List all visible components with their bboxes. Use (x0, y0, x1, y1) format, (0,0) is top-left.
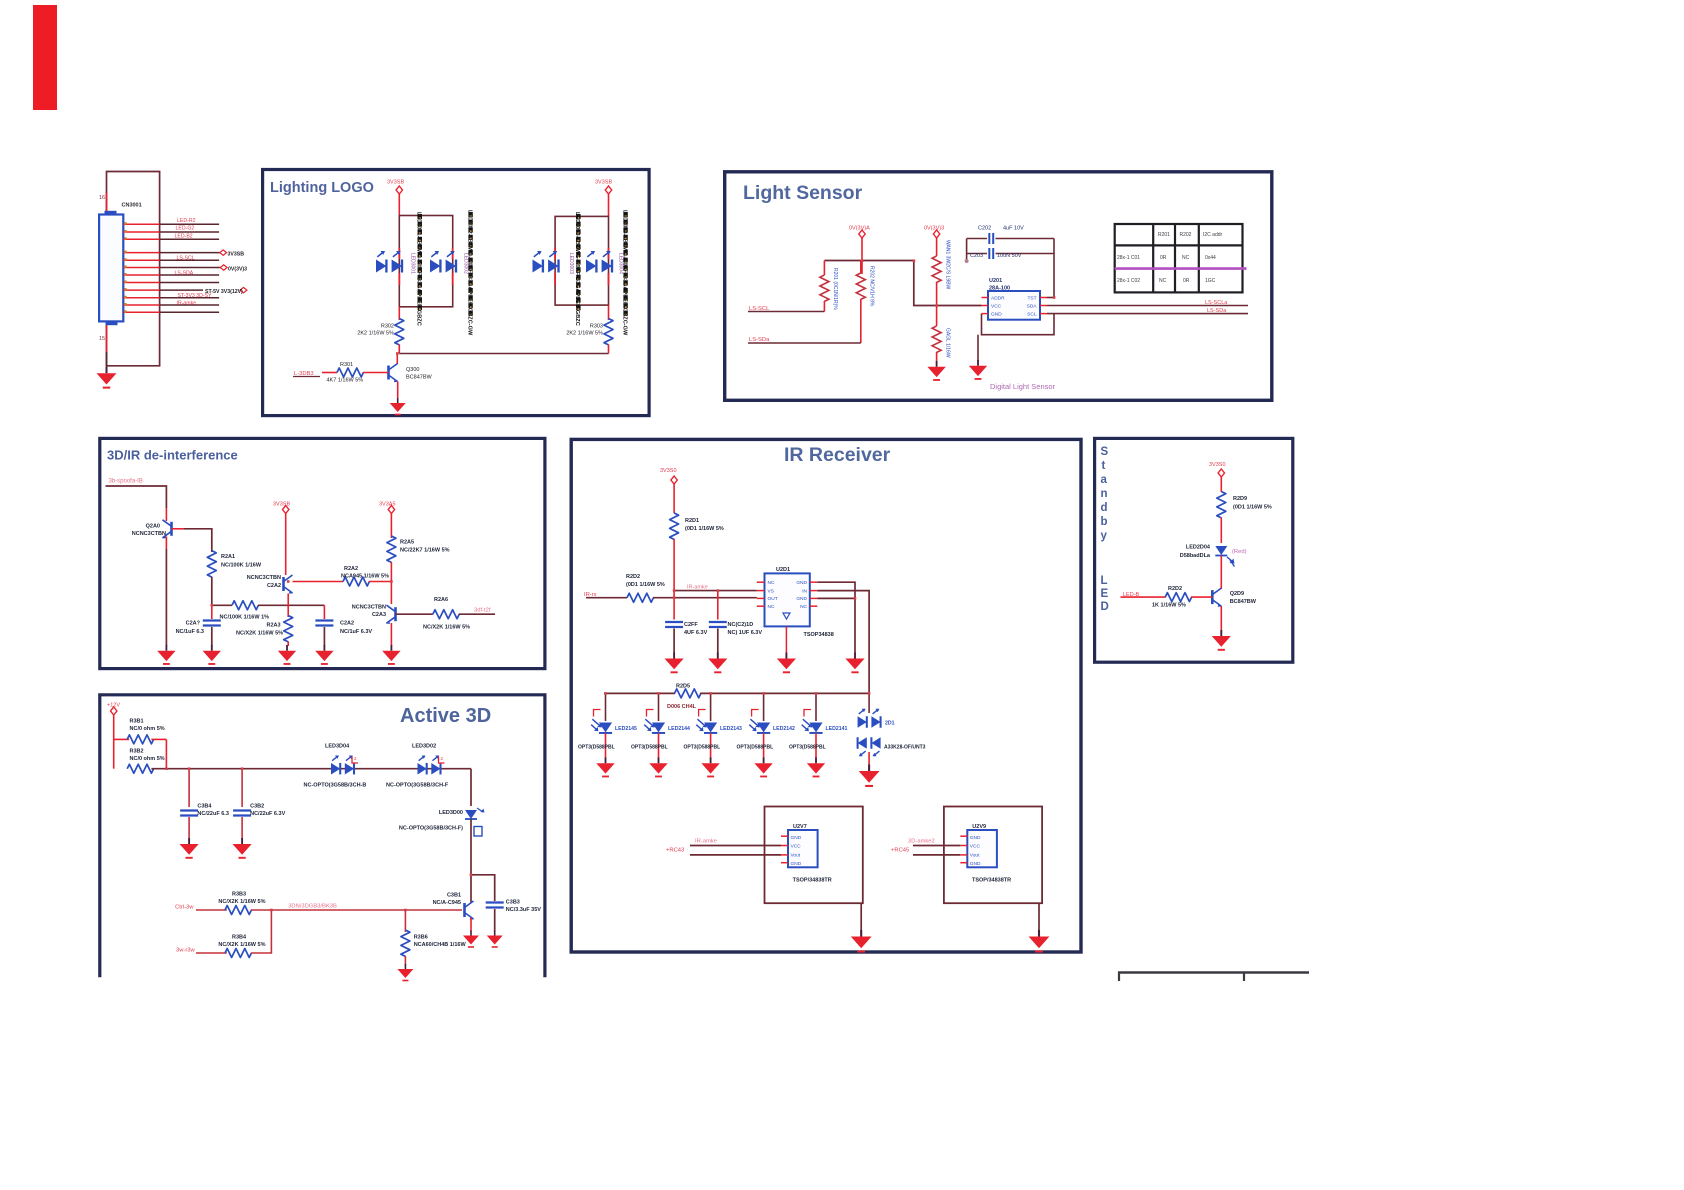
net label LS-SCL (748, 306, 824, 312)
svg-text:4UF 6.3V: 4UF 6.3V (684, 630, 708, 636)
IC left pins (982, 298, 989, 314)
svg-text:3V3S0: 3V3S0 (1209, 462, 1226, 468)
svg-text:NC-OPTO(3G58B/3CH-B: NC-OPTO(3G58B/3CH-B (304, 783, 367, 789)
svg-text:3V3SB: 3V3SB (595, 180, 612, 186)
svg-text:NCA60/CH4B 1/16W: NCA60/CH4B 1/16W (414, 942, 467, 948)
wire rail to transistor (396, 354, 398, 365)
capacitor C3B3 (486, 903, 504, 932)
pin 5 wire (123, 259, 219, 261)
svg-text:C3B2: C3B2 (250, 804, 264, 810)
R301 value label (340, 362, 353, 368)
svg-text:I2C addr: I2C addr (1203, 232, 1223, 238)
svg-text:NC/22uF 6.3V: NC/22uF 6.3V (250, 811, 285, 817)
resistor R203 (932, 240, 950, 326)
svg-text:LED-G2: LED-G2 (176, 226, 195, 232)
svg-text:VS: VS (768, 588, 774, 594)
svg-text:VCC: VCC (991, 303, 1002, 309)
svg-text:2K2 1/16W 5%: 2K2 1/16W 5% (357, 331, 394, 337)
svg-text:GND: GND (796, 580, 807, 586)
svg-text:SDA: SDA (1027, 303, 1038, 309)
capacitor C2D0 (709, 591, 727, 654)
LED2144 group (644, 693, 690, 758)
ground under C3B3 (487, 931, 503, 948)
Lighting LOGO box frame (263, 170, 649, 416)
LED3D02 labels (386, 744, 449, 789)
power flag 3V3SB (1209, 462, 1226, 492)
control rail with R3B3 (175, 905, 462, 915)
svg-text:0V(3V)3: 0V(3V)3 (924, 226, 944, 232)
3D/IR de-interference box frame (100, 438, 545, 668)
pin 9 wire to ST 3V3(12V) (123, 287, 247, 292)
cap loop right vertical (1053, 239, 1055, 298)
svg-text:NC/X2K 1/16W 5%: NC/X2K 1/16W 5% (236, 631, 283, 637)
svg-text:BC847BW: BC847BW (406, 375, 432, 381)
svg-text:IR-amke: IR-amke (695, 839, 717, 845)
transistor Q2A3 (386, 605, 396, 624)
ground under Q2A3 (382, 645, 400, 664)
LED3001 dual led (376, 251, 402, 272)
SDA output wire (1047, 305, 1248, 307)
svg-text:C2FF: C2FF (684, 622, 698, 628)
resistor R204 (932, 326, 950, 362)
wire R2A2 to node (369, 581, 391, 583)
svg-text:NCNC3CTBN: NCNC3CTBN (352, 605, 386, 611)
svg-text:0R: 0R (1160, 255, 1167, 261)
IC right pins (810, 582, 818, 606)
option table (1115, 224, 1247, 292)
LED3002 rotated part text column (462, 210, 472, 336)
Active 3D box frame (open bottom) (100, 695, 545, 978)
svg-text:OPT3(D588PBL: OPT3(D588PBL (789, 745, 826, 751)
GND pin loop (978, 314, 1054, 361)
C3B3 labels (506, 900, 541, 914)
LED3D04 labels (304, 744, 367, 789)
svg-text:IN: IN (802, 588, 807, 594)
svg-text:R2A5: R2A5 (400, 540, 414, 546)
svg-text:R3B6: R3B6 (414, 935, 428, 941)
svg-text:t: t (1102, 460, 1106, 472)
resistor R3B6 (401, 910, 410, 965)
resistor R3B1 (114, 735, 167, 769)
U2V9 pins (960, 836, 967, 863)
ground under C2D0 (708, 653, 727, 673)
resistor R2A3 vertical (284, 605, 293, 646)
svg-text:VCC: VCC (970, 844, 981, 850)
wire LED to Q2D9 (1220, 556, 1222, 590)
svg-text:LED3D00: LED3D00 (439, 810, 463, 816)
svg-text:R2D1: R2D1 (685, 518, 699, 524)
ground below connector (97, 352, 117, 388)
ground under R3B6 (397, 964, 413, 981)
svg-text:U201: U201 (989, 278, 1002, 284)
svg-text:Lighting LOGO: Lighting LOGO (270, 180, 374, 196)
svg-text:GND: GND (970, 861, 981, 867)
svg-text:NC/3.3uF 35V: NC/3.3uF 35V (506, 907, 541, 913)
svg-text:R2D9: R2D9 (1233, 496, 1247, 502)
svg-text:A33K28-OF/UNT3: A33K28-OF/UNT3 (884, 745, 926, 751)
capacitor C2FF (665, 598, 683, 654)
power flag 3V3A5 (379, 502, 396, 539)
svg-text:3b-spoofa-IB: 3b-spoofa-IB (109, 479, 143, 485)
svg-text:C3B3: C3B3 (506, 900, 520, 906)
svg-text:C2A3: C2A3 (372, 612, 386, 618)
collector rail wire (399, 353, 608, 355)
C2A2 labels (340, 621, 372, 636)
svg-text:LED3001-LBDWG-A0AF-B3GAPBEB-GB: LED3001-LBDWG-A0AF-B3GAPBEB-GBZC (416, 212, 422, 326)
svg-text:D58badDLa: D58badDLa (1180, 553, 1211, 559)
svg-text:Digital Light Sensor: Digital Light Sensor (990, 382, 1056, 391)
svg-text:GND: GND (991, 311, 1002, 317)
svg-text:NC: NC (1182, 255, 1190, 261)
svg-text:Q2A0: Q2A0 (146, 524, 160, 530)
input wire with R2D2 (586, 593, 757, 602)
LED3004 rotated part text column (617, 210, 627, 336)
emitter wire Q2A2 (287, 594, 289, 606)
svg-text:GND: GND (791, 861, 802, 867)
svg-text:0R: 0R (1183, 278, 1190, 284)
svg-text:TSOP/34838TR: TSOP/34838TR (793, 878, 832, 884)
LED3002 dual led (430, 251, 456, 272)
ground under C2A2 (315, 645, 333, 664)
net label 3b-spoofa-IB (106, 479, 167, 509)
svg-text:ST-3V3 3D-SY: ST-3V3 3D-SY (178, 293, 213, 299)
svg-text:NCNC3CTBN: NCNC3CTBN (132, 531, 166, 537)
C2A1 labels (176, 621, 204, 636)
U2V7 pins (781, 836, 788, 863)
svg-text:0V(3V)3: 0V(3V)3 (228, 266, 247, 272)
svg-text:IR-amke: IR-amke (177, 300, 197, 306)
svg-text:R3B1: R3B1 (130, 719, 144, 725)
svg-text:R2A2: R2A2 (344, 566, 358, 572)
svg-text:LED2144: LED2144 (668, 726, 690, 732)
R3B4 labels (218, 935, 265, 949)
svg-text:NC/0 ohm 5%: NC/0 ohm 5% (130, 756, 165, 762)
ground under U201 (969, 360, 987, 379)
svg-text:LED-B: LED-B (1123, 592, 1140, 598)
R2D9 labels (1233, 496, 1272, 511)
transistor Q2D9 (1212, 588, 1222, 607)
svg-text:R201: R201 (1158, 232, 1170, 238)
svg-text:BC847BW: BC847BW (1230, 599, 1257, 605)
svg-text:C3B1: C3B1 (447, 893, 461, 899)
capacitor C3B4 (180, 769, 198, 839)
R302 value label (357, 324, 394, 337)
svg-text:LED3003: LED3003 (568, 253, 574, 274)
wire right pin1 to cap loop (1047, 297, 1054, 299)
transistor Q300 (389, 364, 399, 383)
C2D0 labels (728, 622, 763, 636)
ground under Q2D9 (1212, 630, 1231, 650)
svg-text:LS-SDa: LS-SDa (1207, 308, 1227, 314)
svg-text:LED3D02: LED3D02 (412, 744, 436, 750)
opto part labels row (578, 745, 826, 751)
IC U201 (988, 291, 1040, 320)
power flag 0V(3V)3 (924, 226, 944, 257)
power flag 3V3SB left (387, 180, 404, 216)
ground under Q2A0 (157, 645, 175, 664)
pin 2 wire (123, 231, 219, 233)
Q2A3 labels (352, 605, 386, 619)
svg-text:C2A2: C2A2 (340, 621, 354, 627)
led rail wire with R2D5 (604, 689, 869, 698)
svg-text:Ctrl-3w: Ctrl-3w (175, 905, 194, 911)
resistor R2A1 (207, 551, 216, 577)
svg-text:3D/IR de-interference: 3D/IR de-interference (107, 448, 238, 463)
svg-text:R2A1: R2A1 (221, 554, 235, 560)
svg-text:NC: NC (800, 604, 807, 610)
svg-text:TST: TST (1027, 295, 1036, 301)
resistor R202 (856, 261, 874, 344)
LED2143 group (696, 693, 742, 758)
svg-text:R2D2: R2D2 (626, 574, 640, 580)
svg-text:Q2D9: Q2D9 (1230, 591, 1244, 597)
svg-text:IR-amke: IR-amke (687, 584, 708, 590)
LED2D04 (1215, 546, 1234, 567)
svg-text:4uF 10V: 4uF 10V (1003, 226, 1024, 232)
R2D2 labels (1152, 586, 1186, 609)
svg-text:R2A6: R2A6 (434, 597, 448, 603)
base wire with R2D2 (1121, 593, 1213, 602)
ground under R2A3 (278, 645, 296, 664)
svg-text:CN3001: CN3001 (122, 203, 142, 209)
capacitor C2A1 (203, 605, 221, 646)
svg-text:4K7 1/16W 5%: 4K7 1/16W 5% (327, 378, 364, 384)
Q2D9 labels (1230, 591, 1257, 605)
LED vertical title (1101, 575, 1109, 613)
svg-text:LS-SDA: LS-SDA (175, 270, 194, 276)
svg-text:R3B2: R3B2 (130, 749, 144, 755)
LED3004 dual led (586, 251, 612, 272)
collector stub Q2A0 (165, 508, 167, 521)
svg-text:n: n (1101, 488, 1108, 500)
svg-text:28A-100: 28A-100 (989, 286, 1010, 292)
resistor R2D9 (1217, 492, 1226, 518)
power flag +12V (107, 703, 120, 769)
svg-text:NC/100K 1/16W 1%: NC/100K 1/16W 1% (220, 615, 270, 621)
pin 3 wire (123, 238, 219, 240)
LED2141 group (802, 693, 848, 758)
svg-text:OUT: OUT (768, 596, 778, 602)
svg-text:Active 3D: Active 3D (400, 705, 491, 727)
R3B1 labels (130, 719, 165, 733)
sub box U2V9 (944, 807, 1042, 904)
wire R2D1 down (673, 539, 675, 598)
node wire horizontal (212, 601, 325, 610)
svg-text:3DN/3DGB3/BK3B: 3DN/3DGB3/BK3B (288, 904, 337, 910)
pin 12 wire (123, 311, 219, 313)
svg-text:U2V7: U2V7 (793, 824, 807, 830)
svg-text:OPT3(D588PBL: OPT3(D588PBL (578, 745, 615, 751)
LED3003 rotated part text column (568, 212, 580, 326)
svg-text:NC/X2K 1/16W 5%: NC/X2K 1/16W 5% (423, 625, 470, 631)
IC U2V9 (967, 830, 997, 867)
base wire of Q2A0 (172, 529, 212, 552)
ground under C2A1 (203, 645, 221, 664)
resistor R2A5 (387, 536, 396, 562)
LED3D00 labels (399, 810, 463, 832)
svg-text:E: E (1101, 588, 1109, 600)
ground under 2D1 (859, 765, 880, 786)
SCL output wire (1047, 313, 1248, 315)
IC U2D1 (765, 573, 810, 626)
svg-text:NC/A-C945: NC/A-C945 (433, 900, 461, 906)
LED3003 dual led (533, 251, 559, 272)
svg-text:R2D2: R2D2 (1168, 586, 1182, 592)
bus wire corner down (914, 261, 982, 306)
R3B6 labels (414, 935, 467, 949)
net label LS-SDA (748, 337, 861, 343)
LED group1 wire loop (399, 216, 452, 307)
R2A5 labels (400, 540, 450, 554)
svg-text:R2A3: R2A3 (267, 623, 281, 629)
Q300 label (406, 367, 432, 381)
R2A6 labels (423, 597, 470, 631)
svg-text:R301: R301 (340, 362, 353, 368)
svg-text:NC-OPTO(3G58B/3CH-F: NC-OPTO(3G58B/3CH-F (386, 783, 449, 789)
svg-text:D006 CH4L: D006 CH4L (667, 704, 697, 710)
svg-text:+RC43: +RC43 (666, 848, 684, 854)
svg-text:2K2 1/16W 5%: 2K2 1/16W 5% (566, 331, 603, 337)
svg-text:SCL: SCL (1027, 311, 1037, 317)
ground under LED2142 (754, 758, 772, 777)
svg-text:R201 (0C1N/1R)%: R201 (0C1N/1R)% (832, 268, 838, 310)
opto led LED3D04 (331, 755, 358, 774)
svg-text:R302: R302 (381, 324, 394, 330)
resistor R2A2 (343, 577, 369, 586)
svg-text:U2V9: U2V9 (972, 824, 986, 830)
wire R2A1 to node (211, 577, 213, 606)
R2D2 labels (626, 574, 665, 588)
ground under C3B4 (180, 838, 199, 858)
svg-text:C2A2: C2A2 (267, 583, 281, 589)
svg-text:3V3S0: 3V3S0 (660, 468, 677, 474)
svg-text:OPT3(D588PBL: OPT3(D588PBL (631, 745, 668, 751)
svg-text:NC/1uF 6.3V: NC/1uF 6.3V (340, 629, 372, 635)
svg-text:LED2D04: LED2D04 (1186, 545, 1211, 551)
svg-text:2D1: 2D1 (885, 721, 895, 727)
IC right pins (1040, 298, 1047, 314)
svg-text:NC/1uF 6.3: NC/1uF 6.3 (176, 629, 204, 635)
svg-text:LS-SCLa: LS-SCLa (1205, 300, 1228, 306)
svg-text:LED3003-LBDWG-A0AF-B3GAPBEB-GB: LED3003-LBDWG-A0AF-B3GAPBEB-GBZC (574, 212, 580, 326)
TVS 2D1 (858, 693, 881, 765)
svg-text:0x44: 0x44 (1205, 255, 1216, 261)
svg-text:LED2143: LED2143 (720, 726, 742, 732)
svg-text:NCNC3CTBN: NCNC3CTBN (247, 575, 281, 581)
svg-text:NC: NC (768, 580, 775, 586)
svg-text:C3B4: C3B4 (197, 804, 212, 810)
ground under U2D1 (777, 653, 796, 673)
transistor Q3B1 (465, 901, 475, 920)
Q2A0 labels (132, 524, 166, 538)
emitter wire to ground (1220, 606, 1222, 631)
emitter wire Q2A0 to ground (165, 537, 167, 647)
svg-text:TSOP/34838TR: TSOP/34838TR (972, 878, 1011, 884)
Standby vertical title (1101, 446, 1109, 542)
svg-text:NC/100K 1/16W: NC/100K 1/16W (221, 563, 262, 569)
branch wire to C3B3 (471, 875, 495, 901)
svg-text:3D-amke2: 3D-amke2 (908, 839, 935, 845)
svg-text:NC) 1UF 6.3V: NC) 1UF 6.3V (728, 630, 763, 636)
svg-text:GND: GND (791, 835, 802, 841)
ground under LED2141 (807, 758, 825, 777)
R2A4 labels (220, 615, 284, 637)
Q3B1 labels (433, 893, 461, 907)
svg-text:LED2142: LED2142 (773, 726, 795, 732)
svg-text:100N 50V: 100N 50V (997, 253, 1022, 259)
opto led LED3D02 (418, 755, 445, 774)
pin 1 wire (123, 223, 219, 225)
ground under LED2144 (649, 758, 667, 777)
pin 6 wire to 0V(3V)3 (123, 265, 227, 270)
svg-text:16: 16 (99, 195, 105, 201)
svg-text:LED-R2: LED-R2 (177, 218, 196, 224)
svg-text:NC/22K7 1/16W 5%: NC/22K7 1/16W 5% (400, 548, 450, 554)
input wires U2V7 (690, 846, 781, 855)
wire R2D9 to LED (1220, 518, 1222, 544)
LED2142 group (749, 693, 795, 758)
svg-text:3df-t2f: 3df-t2f (474, 608, 491, 614)
connector pin number marks (124, 222, 126, 312)
resistor R201 (820, 261, 838, 312)
resistor R303 (604, 305, 613, 353)
VS wire to C2D0 (674, 590, 757, 592)
ground under C2FF (665, 653, 684, 673)
svg-text:LED2141: LED2141 (826, 726, 848, 732)
svg-text:Vout: Vout (970, 853, 980, 859)
svg-text:OPT3(D588PBL: OPT3(D588PBL (737, 745, 774, 751)
C2FF labels (684, 622, 708, 636)
svg-text:(0D1 1/16W 5%: (0D1 1/16W 5% (626, 582, 665, 588)
svg-text:(Red): (Red) (1232, 549, 1247, 555)
main bus wire (151, 768, 471, 770)
power flag 3V3SB (660, 468, 677, 513)
output wire with R2A6 (396, 610, 496, 619)
svg-text:NCA945 1/16W 5%: NCA945 1/16W 5% (341, 574, 389, 580)
svg-text:D: D (1101, 601, 1109, 613)
svg-text:1GC: 1GC (1205, 278, 1216, 284)
svg-text:15: 15 (99, 336, 105, 342)
svg-text:NC/X2K 1/16W 5%: NC/X2K 1/16W 5% (218, 899, 265, 905)
GND wire right to ground (817, 582, 855, 653)
svg-text:+RC45: +RC45 (891, 848, 909, 854)
C3B4 labels (197, 804, 228, 818)
Standby LED box frame (1095, 438, 1293, 662)
R3B2 labels (130, 749, 165, 763)
base resistor R301 (322, 368, 389, 377)
title block fragment bottom right (1118, 972, 1309, 981)
resistor R302 (395, 307, 404, 354)
ground under Q3B1 (463, 931, 479, 948)
cap loop top wire with C202 (967, 233, 1054, 244)
net label L-3DB red (293, 371, 320, 377)
svg-text:0V(3V)A: 0V(3V)A (849, 226, 870, 232)
svg-text:VCC: VCC (791, 844, 802, 850)
svg-text:LED3004: LED3004 (617, 253, 623, 274)
svg-text:C2A?: C2A? (186, 621, 201, 627)
input wires U2V9 (913, 846, 960, 855)
IN wire down to led rail (817, 591, 869, 694)
sub box U2V7 (765, 807, 863, 904)
cap loop second wire with C203 (967, 248, 1054, 259)
pin 10 wire (123, 297, 219, 299)
wire bus corner down to LED3D00 (470, 769, 472, 806)
svg-text:3V3SB: 3V3SB (387, 180, 404, 186)
transistor Q2A0 (162, 520, 172, 539)
IC left pins (757, 582, 765, 606)
power flag 3V3SB right (595, 180, 612, 217)
power flag 3V3SB (273, 502, 290, 576)
